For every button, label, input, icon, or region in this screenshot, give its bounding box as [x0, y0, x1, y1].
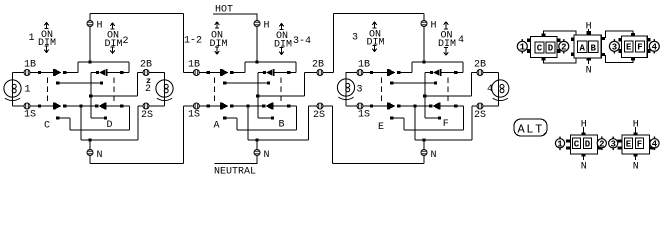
contact pole middle row-S left lower: [223, 116, 226, 119]
contact pole right row-B left lower: [390, 81, 393, 84]
wire: [137, 73, 139, 97]
wire: [463, 106, 465, 130]
svg-text:ALT: ALT: [518, 123, 544, 137]
wire: [66, 105, 95, 107]
switch contact arrow middle row-B right: [266, 69, 273, 76]
connector tab: [557, 49, 560, 53]
arrow up block 3: [372, 22, 377, 28]
module M3 bottom tab: [631, 58, 635, 61]
terminal 2S left: [143, 103, 149, 109]
wire M2 to M3 top loop: [606, 31, 633, 38]
module M3 top tab: [631, 33, 635, 36]
arrow up block 1: [44, 23, 49, 29]
svg-text:B: B: [591, 43, 597, 53]
wire middle lower link: [237, 129, 297, 131]
contact pole middle row-S right upper: [262, 104, 265, 107]
contact pole left row-S left lower: [56, 116, 59, 119]
contact pole right row-B right lower: [434, 81, 437, 84]
contact pole right row-S right upper: [429, 104, 432, 107]
wire: [244, 62, 246, 73]
wire: [91, 117, 104, 119]
contact pole left row-S left upper: [63, 104, 66, 107]
module M1 bottom tab: [542, 58, 546, 61]
connector tab: [527, 38, 530, 42]
terminal H left: [87, 21, 93, 27]
wire right traveler: [392, 82, 436, 84]
junction 1B right: [370, 71, 373, 74]
terminal 2B middle: [317, 70, 323, 76]
svg-text:DIM: DIM: [367, 38, 385, 49]
terminal N middle: [254, 150, 260, 156]
wire: [400, 105, 429, 107]
plug 2: [559, 39, 569, 53]
module M1 outline: [531, 37, 558, 58]
svg-text:1S: 1S: [358, 110, 370, 121]
wire right 2S row: [472, 105, 499, 107]
wire right S bus: [415, 139, 472, 141]
gang link left right switch: [113, 78, 115, 104]
svg-text:DIM: DIM: [274, 40, 292, 51]
junction right H bus: [422, 60, 425, 63]
ALT plug 3: [609, 137, 618, 151]
svg-text:H: H: [431, 21, 437, 32]
junction middle feed row: [256, 94, 259, 97]
connector tab: [618, 146, 623, 149]
terminal 1B right: [357, 70, 363, 76]
wire: [107, 72, 129, 74]
wire: [274, 72, 296, 74]
svg-text:4: 4: [458, 35, 464, 46]
wire: [69, 118, 71, 130]
wire right H stub: [423, 14, 425, 63]
contact pole middle row-B right upper: [263, 71, 266, 74]
ALT box F: [636, 138, 644, 149]
svg-text:B: B: [279, 120, 285, 131]
wire: [58, 117, 70, 119]
module M2 outline: [574, 35, 601, 58]
contact pole right row-B left upper: [397, 71, 400, 74]
terminal 1B middle: [193, 70, 199, 76]
module M3 box F: [636, 41, 645, 53]
wire left 2B row: [138, 72, 165, 74]
wire right 2B row: [472, 72, 499, 74]
svg-text:N: N: [97, 150, 103, 161]
wire: [225, 117, 237, 119]
wire middle 1B row: [184, 72, 222, 74]
wire left S bus: [81, 139, 138, 141]
wire middle 2B feed: [258, 95, 305, 97]
contact pole middle row-B right lower: [267, 81, 270, 84]
ALT box E: [625, 138, 633, 149]
wire left H stub: [89, 14, 91, 63]
arrow down block 3: [372, 46, 377, 52]
svg-text:D: D: [107, 120, 113, 131]
wire middle 1S riser: [183, 106, 185, 164]
wire 1B row right: [346, 72, 389, 74]
svg-text:3: 3: [352, 33, 358, 44]
wire right section internal H bus: [412, 61, 463, 63]
terminal 2B left: [143, 70, 149, 76]
svg-text:H: H: [264, 21, 270, 32]
junction left row-S: [79, 104, 82, 107]
arrow down block 2: [110, 47, 115, 54]
wire lamp3 stem: [345, 73, 347, 107]
junction middle row-S: [246, 104, 249, 107]
wire middle S riser: [247, 106, 249, 140]
module M1 top tab: [542, 34, 546, 37]
wire left N to middle 1S: [90, 163, 184, 165]
wire: [471, 73, 473, 97]
svg-text:1: 1: [557, 140, 563, 150]
wire middle 2B riser: [333, 14, 335, 73]
wire NEUTRAL feed: [215, 163, 258, 165]
contact pole right row-S left upper: [397, 104, 400, 107]
svg-text:A: A: [580, 43, 586, 53]
wire right N drop: [423, 140, 425, 164]
svg-text:1S: 1S: [24, 110, 36, 121]
connector tab: [566, 140, 571, 143]
wire lamp1 stem: [12, 73, 14, 107]
connector tab: [618, 140, 623, 143]
wire middle 2S row: [309, 105, 333, 107]
wire 1B row left: [13, 72, 56, 74]
svg-text:1B: 1B: [358, 60, 370, 71]
terminal H middle: [254, 21, 260, 27]
terminal 1B left: [24, 70, 30, 76]
contact pole left row-S right lower: [104, 116, 107, 119]
svg-text:2: 2: [145, 84, 151, 95]
wire left lower link: [70, 129, 130, 131]
terminal N left: [87, 150, 93, 156]
contact pole middle row-B left upper: [230, 71, 233, 74]
junction right row-S right: [454, 104, 457, 107]
arrow down block 4: [444, 48, 449, 56]
wire middle N drop: [256, 140, 258, 164]
wire left 2B feed: [91, 95, 138, 97]
connector tab: [650, 140, 655, 143]
wire: [441, 72, 463, 74]
connector tab: [619, 38, 622, 42]
svg-text:1B: 1B: [188, 60, 200, 71]
module M3 outline: [622, 36, 648, 58]
terminal 2S middle: [317, 103, 323, 109]
svg-text:N: N: [633, 162, 639, 173]
plug 4: [649, 39, 659, 53]
arrow down block 1-2: [215, 47, 220, 54]
svg-text:N: N: [431, 150, 437, 161]
wire left traveler: [58, 82, 102, 84]
wire right lower link: [404, 129, 464, 131]
svg-text:D: D: [548, 44, 554, 54]
connector tab: [598, 146, 603, 149]
wire: [392, 117, 404, 119]
wire middle S bus: [248, 139, 309, 141]
arrow up block 1-2: [215, 22, 220, 28]
wire: [258, 72, 264, 74]
svg-text:3: 3: [357, 85, 363, 96]
wire: [403, 118, 405, 130]
wire middle right switch common: [257, 73, 259, 119]
wire middle 1S row: [184, 105, 222, 107]
switch contact arrow left row-B right: [99, 69, 106, 76]
wire: [106, 105, 130, 107]
wire: [66, 72, 78, 74]
terminal 1S right: [357, 103, 363, 109]
switch contact arrow left row-S right: [98, 103, 105, 110]
ALT module EF outline: [622, 135, 650, 154]
wire left 2S drop: [137, 106, 139, 140]
svg-text:E: E: [378, 122, 384, 133]
wire left right switch common: [90, 73, 92, 119]
wire: [91, 72, 97, 74]
svg-text:1-2: 1-2: [184, 36, 202, 47]
junction left H bus: [88, 60, 91, 63]
wire 1S row right: [346, 105, 389, 107]
wire: [425, 72, 431, 74]
wire right 2B feed: [425, 95, 472, 97]
contact pole left row-S right upper: [95, 104, 98, 107]
contact pole left row-B right lower: [100, 81, 103, 84]
junction left row-B right: [120, 71, 123, 74]
wire: [304, 73, 306, 97]
svg-text:E: E: [626, 43, 632, 53]
ALT module CD outline: [571, 135, 598, 154]
switch contact arrow right row-S right: [432, 103, 439, 110]
wire: [258, 117, 271, 119]
terminal 1S middle: [193, 103, 199, 109]
svg-text:1S: 1S: [188, 110, 200, 121]
wire: [236, 118, 238, 130]
switch contact arrow right row-B right: [433, 69, 440, 76]
svg-text:3: 3: [612, 43, 617, 53]
ALT plug 4: [650, 137, 659, 151]
wire middle 2S left drop: [308, 106, 310, 140]
svg-text:E: E: [626, 139, 632, 149]
wire lamp4 stem: [498, 73, 500, 107]
connector tab: [650, 146, 655, 149]
ALT label box: [514, 119, 547, 136]
terminal 1S left: [24, 103, 30, 109]
connector tab: [571, 38, 574, 42]
junction right row-S: [413, 104, 416, 107]
svg-text:NEUTRAL: NEUTRAL: [214, 167, 256, 176]
gang link middle left switch: [214, 78, 216, 102]
wire middle traveler: [225, 82, 269, 84]
junction right row-B right: [454, 71, 457, 74]
plug 1: [517, 39, 527, 53]
terminal H right: [421, 21, 427, 27]
svg-text:1: 1: [520, 43, 526, 53]
module M2 N tab: [587, 58, 591, 60]
svg-text:C: C: [44, 121, 50, 132]
wire middle 2B row: [305, 72, 334, 74]
ALT EF H tab: [634, 133, 638, 136]
ALT CD N tab: [582, 154, 586, 157]
plug 3: [609, 39, 619, 53]
svg-text:1: 1: [29, 33, 35, 44]
gang link right right switch: [447, 78, 449, 104]
wire middle 2B to right H: [334, 13, 425, 15]
svg-text:F: F: [637, 139, 642, 149]
wire: [295, 62, 297, 73]
svg-text:H: H: [97, 21, 103, 32]
svg-text:2S: 2S: [474, 110, 486, 121]
svg-text:1B: 1B: [24, 60, 36, 71]
module M2 box B: [589, 41, 599, 53]
contact pole left row-B left upper: [63, 71, 66, 74]
svg-text:2B: 2B: [312, 60, 324, 71]
wire right 2S drop: [471, 106, 473, 140]
wire M2 to M3 bottom loop: [606, 55, 633, 63]
ALT CD H tab: [582, 133, 586, 136]
wire lamp2 stem: [164, 73, 166, 107]
svg-text:D: D: [585, 139, 591, 149]
module M3 box E: [624, 41, 633, 53]
wire: [462, 62, 464, 73]
wire left S riser: [80, 106, 82, 140]
wire M1 to M2 top loop: [543, 31, 576, 35]
wire right right switch common: [424, 73, 426, 119]
arrow up block 4: [444, 22, 449, 29]
terminal N right: [421, 150, 427, 156]
switch contact arrow right row-B left: [389, 69, 396, 76]
connector tab: [571, 52, 574, 56]
arrow down block 1: [44, 46, 49, 53]
ALT box C: [573, 138, 581, 149]
module M2 H tab: [587, 31, 591, 35]
gang link left left switch: [47, 78, 49, 102]
svg-text:3-4: 3-4: [293, 36, 311, 47]
wire middle 2S right drop: [332, 106, 334, 164]
junction right feed row: [423, 94, 426, 97]
wire: [273, 105, 297, 107]
arrow down block 3-4: [279, 48, 284, 55]
junction middle H bus: [255, 60, 258, 63]
connector tab: [601, 53, 605, 56]
wire: [296, 106, 298, 130]
connector tab: [598, 140, 603, 143]
wire: [233, 105, 262, 107]
svg-text:4: 4: [487, 84, 493, 95]
wire middle 1B drop: [183, 14, 185, 73]
contact pole right row-S right lower: [438, 116, 441, 119]
ALT plug 2: [597, 137, 606, 151]
junction middle N tap: [255, 138, 258, 141]
switch contact arrow middle row-S left: [222, 103, 229, 110]
wire M1 to M2 bottom loop: [543, 58, 576, 63]
contact pole left row-B right upper: [96, 71, 99, 74]
svg-text:2S: 2S: [141, 110, 153, 121]
switch contact arrow middle row-S right: [265, 103, 272, 110]
contact pole middle row-S right lower: [271, 116, 274, 119]
junction right N tap: [422, 138, 425, 141]
wire: [77, 62, 79, 73]
junction left N tap: [88, 138, 91, 141]
contact pole left row-B left lower: [56, 81, 59, 84]
wire middle 2S drop: [308, 106, 310, 140]
wire: [128, 62, 130, 73]
svg-text:DIM: DIM: [210, 39, 228, 50]
arrow up block 3-4: [279, 24, 284, 30]
ALT plug 1: [555, 137, 564, 151]
wire HOT feed: [213, 13, 258, 15]
junction 1B middle: [207, 71, 210, 74]
svg-text:F: F: [443, 119, 449, 130]
wire left H to middle 1B: [90, 13, 184, 15]
contact pole middle row-B left lower: [223, 81, 226, 84]
wire: [411, 62, 413, 73]
connector tab: [601, 37, 605, 40]
connector tab: [527, 49, 530, 53]
connector tab: [557, 38, 560, 42]
gang link middle right switch: [280, 78, 282, 104]
wire: [233, 72, 245, 74]
wire left 2S row: [138, 105, 165, 107]
svg-text:2: 2: [123, 36, 129, 47]
junction 1B left: [38, 71, 41, 74]
wire: [400, 72, 412, 74]
module M2 box A: [578, 41, 588, 53]
wire left section internal H bus: [78, 61, 129, 63]
switch contact arrow left row-S left: [55, 103, 62, 110]
wire left N drop: [89, 140, 91, 164]
wire middle H stub: [256, 14, 258, 63]
svg-text:3: 3: [610, 140, 615, 150]
junction 1S left: [38, 104, 41, 107]
svg-text:F: F: [637, 43, 642, 53]
svg-text:2: 2: [561, 43, 566, 53]
contact pole right row-B right upper: [430, 71, 433, 74]
wire middle 2S to right N: [333, 163, 425, 165]
svg-text:N: N: [264, 150, 270, 161]
svg-text:2B: 2B: [474, 60, 486, 71]
svg-text:N: N: [581, 162, 587, 173]
junction middle row-B right: [287, 71, 290, 74]
ALT EF N tab: [634, 154, 638, 157]
wire: [129, 106, 131, 130]
svg-text:DIM: DIM: [438, 39, 456, 50]
svg-text:2S: 2S: [313, 110, 325, 121]
switch contact arrow right row-S left: [389, 103, 396, 110]
contact pole middle row-S left upper: [230, 104, 233, 107]
svg-text:A: A: [214, 121, 220, 132]
connector tab: [619, 49, 622, 53]
svg-text:DIM: DIM: [105, 39, 123, 50]
junction middle row-S right: [287, 104, 290, 107]
wire middle section internal H bus: [245, 61, 296, 63]
module M1 box D: [546, 42, 555, 54]
svg-text:C: C: [537, 44, 543, 54]
switch contact arrow middle row-B left: [222, 69, 229, 76]
junction left row-S right: [120, 104, 123, 107]
switch contact arrow left row-B left: [55, 69, 62, 76]
wire: [425, 117, 438, 119]
svg-text:C: C: [574, 139, 580, 149]
wire: [440, 105, 464, 107]
junction 1S right: [370, 104, 373, 107]
svg-text:1: 1: [25, 85, 31, 96]
svg-text:2B: 2B: [140, 60, 152, 71]
wire right S riser: [414, 106, 416, 140]
svg-text:4: 4: [652, 43, 658, 53]
contact pole right row-S left lower: [390, 116, 393, 119]
connector tab: [647, 49, 650, 53]
terminal 2S right: [477, 103, 483, 109]
junction 1S middle: [207, 104, 210, 107]
terminal 2B right: [477, 70, 483, 76]
ALT box D: [584, 138, 592, 149]
module M1 box C: [535, 42, 544, 54]
